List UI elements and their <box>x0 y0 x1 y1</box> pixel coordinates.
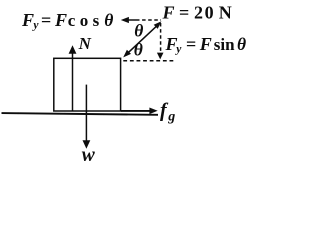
arrowhead: Fx left <box>121 17 129 23</box>
svg-text:θ: θ <box>134 39 143 59</box>
wire: weight shaft <box>85 85 87 141</box>
arrowhead: F diagonal upper-right <box>154 21 162 29</box>
svg-text:F=20N: F=20N <box>162 3 232 23</box>
arrowhead: N up <box>69 45 77 54</box>
wire: diagonal force F line <box>126 24 159 55</box>
wire: Fx component dashed shaft <box>136 19 161 21</box>
wire: vertical dashed projection <box>160 23 162 53</box>
svg-text:θ: θ <box>134 20 143 40</box>
wire: horizontal dashed projection <box>123 60 174 62</box>
arrowhead: Fy down <box>157 53 164 60</box>
svg-text:Fy=Fsinθ: Fy=Fsinθ <box>165 34 247 56</box>
wire: Fx component solid shaft <box>129 19 137 21</box>
arrowhead: f_g right <box>149 108 157 115</box>
arrowhead: F diagonal lower-left <box>123 50 131 58</box>
wire: normal force shaft <box>72 54 74 112</box>
arrowhead: w down <box>83 140 91 149</box>
wire: friction shaft <box>121 110 150 112</box>
svg-text:N: N <box>78 34 92 53</box>
ground line <box>2 113 159 115</box>
block (rectangle) <box>54 58 121 111</box>
svg-text:w: w <box>82 145 96 166</box>
